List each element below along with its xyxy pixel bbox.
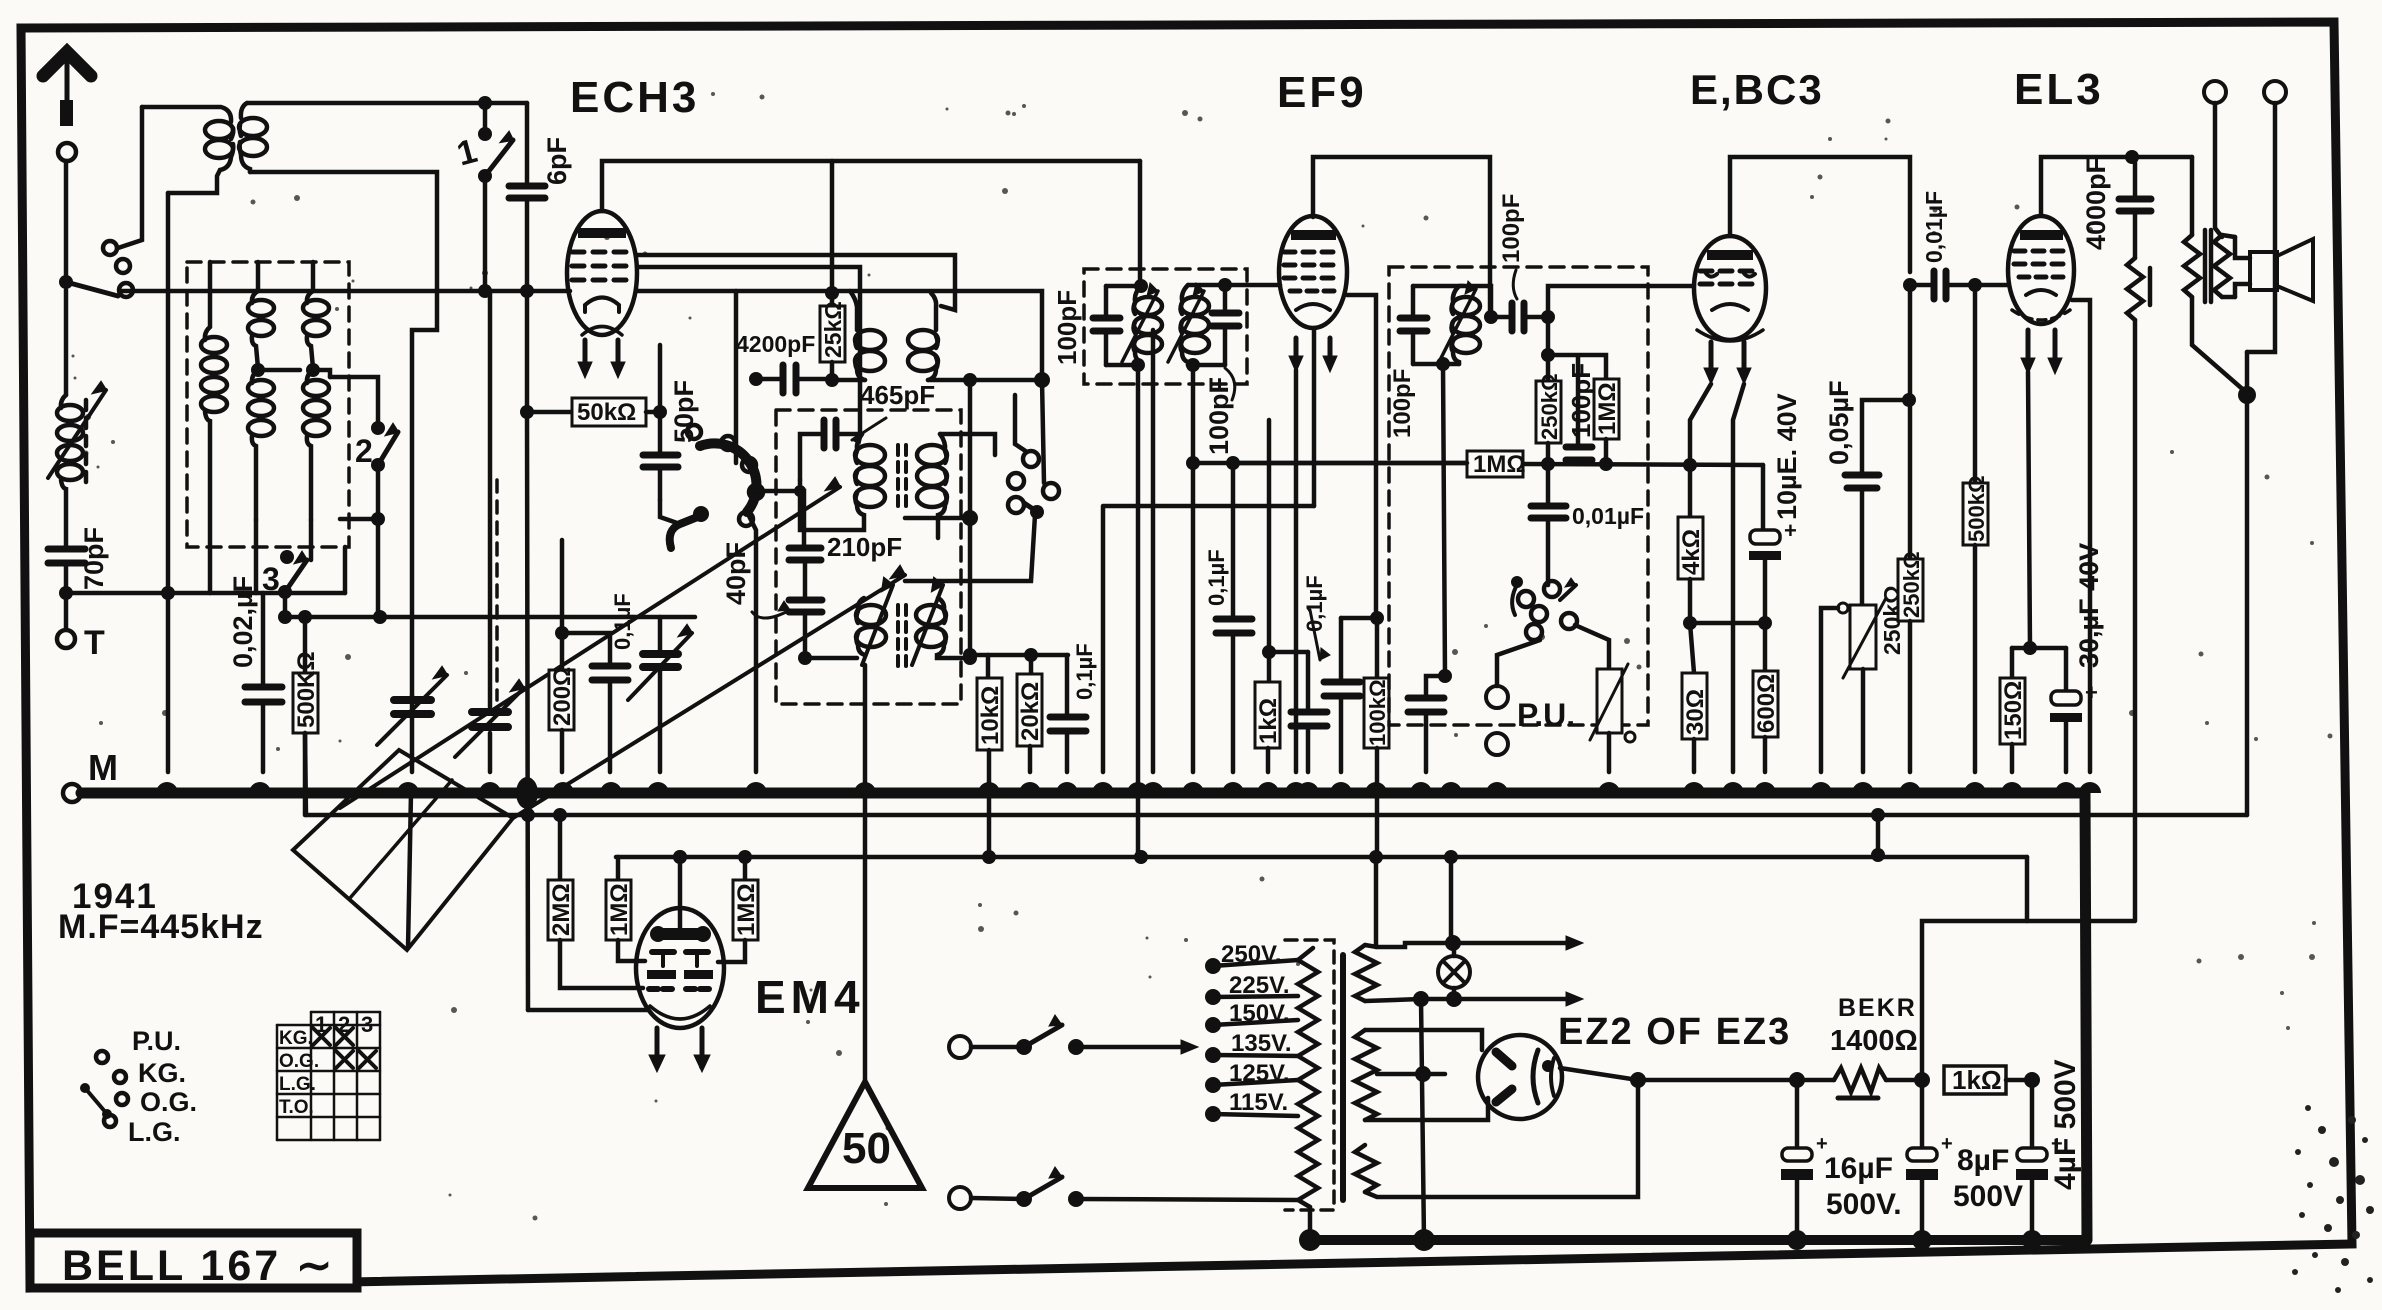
capacitor 4000pF	[2081, 157, 2151, 258]
svg-text:2: 2	[355, 433, 373, 469]
capacitor 4200pF	[736, 331, 832, 393]
capacitor 100pF series	[1491, 194, 1548, 331]
resistor BEKR 1400Ω	[1797, 994, 1922, 1098]
resistor 30Ω	[1682, 623, 1709, 772]
secondary S3	[1355, 1145, 1377, 1192]
svg-text:E,BC3: E,BC3	[1690, 66, 1824, 113]
svg-text:50pF: 50pF	[669, 380, 699, 443]
svg-text:465pF: 465pF	[860, 380, 935, 410]
resistor 1kΩ	[1255, 420, 1308, 772]
resistor 100kΩ	[1341, 295, 1390, 858]
wire S2 top to EZ2	[1365, 1030, 1482, 1050]
wire y593	[66, 591, 345, 596]
resistor 200Ω	[549, 633, 576, 772]
svg-text:L.G.: L.G.	[128, 1117, 181, 1147]
capacitor 0.1µF osc	[1050, 643, 1097, 772]
triangle 50	[808, 1082, 922, 1188]
wire EM4 left feed	[528, 1008, 648, 1013]
svg-text:1MΩ: 1MΩ	[606, 883, 633, 936]
switch 2	[330, 377, 398, 617]
svg-text:3: 3	[361, 1012, 373, 1037]
resistor 2MΩ	[548, 808, 643, 988]
tube EL3	[2008, 216, 2074, 324]
terminal PU upper	[1486, 640, 1575, 733]
capacitor 0.1µF screen	[1204, 463, 1252, 772]
wire padder column	[863, 665, 868, 1082]
svg-text:KG.: KG.	[279, 1028, 313, 1049]
capacitor 0.1µF cathode a	[1291, 652, 1327, 772]
switch 3	[262, 550, 307, 624]
svg-text:P.U.: P.U.	[1517, 697, 1575, 733]
EL3 cathode arrows	[2021, 330, 2062, 374]
output transformer secondary	[2214, 235, 2235, 297]
svg-text:10kΩ: 10kΩ	[977, 686, 1004, 745]
antenna	[43, 52, 91, 161]
wire heater return to bus	[1421, 999, 1424, 1240]
transformer core	[1340, 955, 1346, 1200]
resistor 250kΩ det	[1536, 373, 1562, 471]
svg-text:600Ω: 600Ω	[1753, 674, 1780, 733]
tuning gang capacitor 1	[377, 667, 447, 948]
svg-text:50kΩ: 50kΩ	[577, 399, 636, 426]
speaker return	[2238, 352, 2256, 815]
svg-text:0,1µF: 0,1µF	[610, 593, 635, 650]
oscillator coil dashed box	[187, 262, 349, 547]
resistor 1MΩ em4 right	[718, 850, 760, 962]
resistor 50kΩ	[520, 398, 660, 426]
IF1 right coil	[1168, 283, 1209, 365]
terminal PU lower	[1486, 733, 1508, 755]
svg-text:250kΩ: 250kΩ	[1899, 551, 1924, 618]
wire EBC3 plate	[1730, 157, 1910, 272]
wire EF9 cathode left	[1294, 370, 1299, 772]
node EBC3 cathode	[1683, 458, 1697, 472]
node branch	[1541, 348, 1555, 362]
tube ECH3	[567, 211, 637, 378]
wire switch3 row	[285, 615, 380, 620]
svg-text:100pF: 100pF	[1389, 369, 1416, 438]
title box BELL 167	[30, 1233, 357, 1290]
svg-text:50: 50	[842, 1124, 891, 1173]
capacitor 30µF 40V	[2050, 543, 2104, 772]
svg-text:115V.: 115V.	[1229, 1089, 1288, 1116]
resistor 10kΩ	[977, 678, 1004, 858]
PU switch cluster	[1511, 576, 1577, 640]
bottom heavy bus	[1310, 1235, 2087, 1245]
svg-text:1400Ω: 1400Ω	[1830, 1025, 1918, 1057]
transformer dashed boundary	[1285, 940, 1334, 1210]
IF transformer 1 dashed box	[1084, 269, 1247, 384]
svg-text:16µF: 16µF	[1824, 1152, 1893, 1185]
osc coil T2	[908, 293, 1042, 380]
svg-text:100pF: 100pF	[1052, 290, 1082, 365]
wire EL3 cathode	[2028, 372, 2030, 648]
capacitor 210pF	[789, 532, 902, 599]
wire ECH3 side y267	[637, 291, 1044, 483]
wire AVC line	[1233, 463, 1763, 465]
transformer taps	[1205, 958, 1298, 1122]
bus connection bumps	[156, 782, 2101, 793]
node 500k tap	[1968, 278, 1982, 292]
node switch1 grid	[478, 284, 492, 298]
wire heater drops	[1376, 857, 1451, 947]
capacitor 40pF	[721, 542, 822, 658]
IF1 left coil	[1106, 279, 1162, 372]
wire S1 bottom rail	[1365, 999, 1570, 1001]
capacitor 50pF	[643, 380, 699, 500]
osc padder coil right	[916, 598, 977, 665]
capacitor 10µE 40V	[1749, 393, 1802, 623]
antenna selector switch	[59, 241, 133, 297]
dial lamp	[1438, 943, 1470, 999]
wire EF9 plate rail	[1313, 157, 1490, 317]
wire top L2/L3 joins	[210, 262, 313, 291]
svg-text:100pF: 100pF	[1498, 194, 1525, 263]
tuning drive diagonal 2	[513, 575, 905, 818]
wire coil bottoms	[256, 520, 311, 593]
svg-text:500V.: 500V.	[1826, 1188, 1902, 1221]
svg-text:135V.: 135V.	[1231, 1030, 1292, 1057]
svg-text:0,1µF: 0,1µF	[1302, 575, 1327, 632]
variable antenna coil	[48, 290, 106, 548]
wire switch contact to 210pF	[750, 491, 804, 546]
wire y463 AVC	[1193, 461, 1467, 466]
svg-text:BELL 167 ∼: BELL 167 ∼	[62, 1242, 335, 1290]
svg-text:500KΩ: 500KΩ	[293, 651, 320, 728]
tube EZ2	[1478, 1035, 1562, 1119]
svg-text:P.U.: P.U.	[132, 1026, 181, 1056]
svg-text:210pF: 210pF	[827, 532, 902, 562]
wire IF1 left drop	[1136, 365, 1141, 858]
node y593 crossing	[161, 586, 175, 600]
wire 500k through	[305, 733, 306, 815]
resistor 1MΩ det	[1548, 355, 1621, 471]
svg-text:100kΩ: 100kΩ	[1365, 679, 1390, 746]
EM4 cathode arrows	[649, 1028, 710, 1072]
svg-text:100pF: 100pF	[1204, 377, 1234, 455]
svg-text:L.G.: L.G.	[279, 1074, 316, 1095]
wire L2 tap	[258, 370, 330, 377]
terminal T	[57, 593, 105, 662]
wire 50kΩ up to tube	[658, 345, 663, 412]
wire plate branch down	[1908, 285, 1913, 400]
svg-text:100pF: 100pF	[1566, 363, 1596, 438]
node 6pF top	[478, 96, 492, 110]
capacitor 0.1µF cathode b	[1302, 575, 1360, 772]
wire ECH3 triode grid right y243	[637, 255, 955, 310]
svg-text:EL3: EL3	[2014, 65, 2104, 114]
wire IF1 right drop	[1191, 365, 1196, 772]
capacitor 0.02µF	[228, 576, 282, 772]
wire EF9 center tail	[1312, 328, 1317, 506]
bus right leg	[2085, 793, 2087, 1240]
wire y815	[306, 813, 2247, 818]
svg-text:2MΩ: 2MΩ	[548, 883, 575, 936]
resistor zigzag B+	[2127, 258, 2150, 920]
svg-text:+: +	[1941, 1133, 1953, 1155]
capacitor 8µF 500V	[1906, 1080, 2023, 1240]
band switch table	[277, 1012, 380, 1140]
wire node to EBC3 grid	[1548, 286, 1694, 317]
node det	[1484, 310, 1498, 324]
svg-text:500kΩ: 500kΩ	[1964, 475, 1989, 542]
svg-text:30,µF 40V: 30,µF 40V	[2074, 543, 2104, 668]
wire ECH3 plate to top rail	[602, 161, 1140, 211]
capacitor 100pF af	[1566, 356, 1596, 464]
wire left drop to ground bus	[166, 193, 171, 772]
svg-text:EF9: EF9	[1277, 68, 1367, 117]
output transformer primary	[2184, 157, 2247, 393]
wire primary to selector	[118, 107, 142, 248]
svg-text:40pF: 40pF	[721, 542, 751, 605]
svg-text:EM4: EM4	[755, 971, 865, 1023]
svg-text:20kΩ: 20kΩ	[1017, 682, 1044, 741]
wire grid column through bus	[527, 291, 528, 1010]
node grid line	[520, 284, 534, 298]
band rotary switch	[670, 425, 763, 548]
svg-text:O.G.: O.G.	[140, 1087, 197, 1117]
wire switch1 down to grid line	[483, 176, 488, 291]
svg-text:0,02,µF: 0,02,µF	[228, 576, 258, 668]
capacitor 100pF IF1 right	[1188, 285, 1239, 365]
wire cathode node	[1690, 621, 1765, 626]
volume potentiometer	[1575, 625, 1635, 772]
wire rail into IF1	[1138, 161, 1143, 286]
svg-text:KG.: KG.	[138, 1058, 186, 1088]
IF2 coil left	[800, 434, 885, 530]
svg-text:BEKR: BEKR	[1838, 994, 1917, 1022]
wire EZ2 output	[1560, 1068, 1797, 1080]
svg-text:3: 3	[262, 561, 280, 597]
big bus junction	[516, 777, 538, 809]
potentiometer 250kΩ tone	[1821, 585, 1905, 772]
node T join	[825, 373, 839, 387]
secondary S1	[1355, 945, 1377, 1001]
IF2 dashed box	[776, 410, 961, 704]
capacitor 16µF 500V	[1781, 1080, 1902, 1240]
detector coil	[1413, 281, 1480, 371]
node x563	[560, 540, 565, 633]
svg-text:M.F=445kHz: M.F=445kHz	[58, 908, 264, 946]
wire B+ return loop	[1922, 921, 2135, 1080]
osc padder coil left	[798, 598, 886, 665]
node junction	[59, 586, 73, 600]
svg-text:+: +	[1784, 518, 1797, 543]
EBC3 cathode arrows	[1690, 342, 1751, 772]
loudspeaker	[2235, 237, 2313, 301]
svg-text:0,01µF: 0,01µF	[1572, 503, 1644, 529]
svg-text:1MΩ: 1MΩ	[733, 883, 760, 936]
padder tuning arrows	[862, 585, 893, 665]
capacitor 100pF det	[1389, 286, 1427, 438]
svg-text:T: T	[84, 624, 105, 662]
terminal M	[63, 747, 118, 802]
wire coil top to diode node	[1459, 286, 1491, 317]
IF2 core dashes	[898, 445, 906, 508]
wire osc to 10k	[968, 380, 973, 655]
mechanical link dashes	[495, 480, 499, 700]
terminal ext 1	[2204, 81, 2226, 237]
secondary S2	[1355, 1030, 1377, 1120]
terminal ext 2	[2247, 81, 2286, 352]
node coupling	[1903, 278, 1917, 292]
resistor 4kΩ	[1678, 465, 1705, 630]
chassis bus M	[81, 788, 2085, 799]
resistor 1kΩ out	[1944, 1065, 2032, 1095]
capacitor 6pF	[509, 103, 572, 291]
grid line wire to ECH3	[120, 289, 570, 294]
padder core dashes	[898, 605, 906, 668]
capacitor 0.01µF coupling	[1910, 191, 2008, 299]
oscillator coil L3	[303, 291, 329, 520]
svg-text:4000pF: 4000pF	[2081, 157, 2111, 250]
resistor 1MΩ AVC series	[1467, 451, 1526, 478]
svg-text:M: M	[88, 747, 118, 788]
trimmer capacitor osc	[377, 617, 695, 772]
wire switch to bus	[747, 512, 756, 772]
wire S3 to output node	[1365, 1080, 1638, 1197]
tuning gang capacitor 2	[455, 291, 524, 772]
svg-text:1MΩ: 1MΩ	[1473, 451, 1526, 478]
wire det return	[1426, 364, 1445, 697]
resistor 250kΩ	[1898, 400, 1924, 772]
IF2 coil right	[917, 434, 995, 538]
mains switch 2	[949, 1167, 1298, 1209]
svg-text:EZ2 OF EZ3: EZ2 OF EZ3	[1558, 1011, 1791, 1053]
transformer primary winding	[1298, 948, 1318, 1207]
resistor 1MΩ em4 left	[606, 857, 645, 961]
svg-text:250kΩ: 250kΩ	[1537, 373, 1562, 440]
svg-text:10µE. 40V: 10µE. 40V	[1772, 393, 1802, 520]
wire EL3 plate rail	[2041, 157, 2192, 215]
wire y857 heater rail	[616, 855, 2027, 860]
svg-text:6pF: 6pF	[542, 137, 572, 185]
band legend terminals	[80, 1026, 197, 1147]
wire IF1 to EF9 grid	[1188, 283, 1280, 288]
blobs bottom bus	[1299, 1229, 2042, 1251]
switch 1	[453, 127, 513, 183]
capacitor 70pF	[48, 527, 109, 593]
wire S2 bottom to EZ2	[1365, 1098, 1488, 1120]
svg-text:ECH3: ECH3	[570, 73, 699, 122]
svg-text:0,1µF: 0,1µF	[1204, 549, 1229, 606]
svg-text:500V: 500V	[1953, 1180, 2023, 1213]
antenna input transformer	[142, 103, 267, 193]
capacitor 0.01µF det	[1531, 464, 1644, 585]
wire secondary top to switch1	[247, 103, 527, 134]
resistor 150Ω	[2000, 648, 2027, 772]
svg-text:1kΩ: 1kΩ	[1255, 698, 1282, 744]
capacitor 100pF IF1 left	[1052, 286, 1120, 365]
svg-text:25kΩ: 25kΩ	[820, 301, 846, 358]
svg-text:O.G.: O.G.	[279, 1051, 319, 1072]
svg-text:30Ω: 30Ω	[1682, 689, 1709, 735]
transformer tap labels	[1221, 941, 1292, 1116]
svg-text:4200pF: 4200pF	[736, 331, 815, 357]
wire EL3 screen	[2072, 300, 2090, 772]
capacitor det bypass	[1408, 698, 1444, 772]
svg-text:T.O.: T.O.	[279, 1097, 314, 1118]
wire secondary bottom to gang	[250, 172, 437, 695]
svg-text:1MΩ: 1MΩ	[1594, 382, 1621, 435]
node AF	[1541, 310, 1555, 324]
svg-text:0,1µF: 0,1µF	[1072, 643, 1097, 700]
oscillator coil L1	[201, 291, 227, 593]
tuning drive tilted box	[293, 750, 513, 950]
tube EBC3	[1694, 236, 1766, 341]
wire antenna to selector	[64, 161, 69, 277]
capacitor 465pF	[800, 380, 935, 480]
wire suppressor to chassis	[1151, 330, 1156, 772]
wire y506	[1103, 506, 1314, 772]
detector dashed box	[1389, 267, 1648, 725]
svg-text:8µF: 8µF	[1957, 1144, 2009, 1177]
tube EM4	[636, 850, 724, 1028]
resistor 25kΩ	[820, 161, 846, 380]
svg-text:150Ω: 150Ω	[2000, 681, 2027, 740]
wire S1 top to heater rail	[1365, 943, 1570, 947]
oscillator coil L2	[248, 291, 274, 520]
resistor 500kΩ	[293, 617, 320, 815]
resistor 20kΩ	[1017, 648, 1044, 772]
svg-text:4kΩ: 4kΩ	[1678, 529, 1705, 575]
tube EF9	[1279, 216, 1347, 372]
mains switch 1	[949, 1015, 1198, 1058]
resistor 600Ω	[1753, 623, 1780, 772]
capacitor 0.05µF	[1824, 380, 1909, 605]
capacitor 4µF 500V	[2016, 1059, 2082, 1240]
osc coil T1	[736, 291, 885, 463]
corner noise	[2292, 1105, 2374, 1293]
svg-text:200Ω: 200Ω	[549, 667, 576, 726]
tuning drive diagonal 1	[340, 487, 840, 808]
resistor 500kΩ out	[1963, 285, 1989, 772]
node 8uF	[1914, 1072, 1930, 1088]
output transformer core	[2205, 230, 2211, 302]
svg-text:0,01µF: 0,01µF	[1921, 191, 1947, 263]
svg-text:+: +	[2085, 680, 2098, 705]
wire osc row to bus	[343, 547, 348, 593]
capacitor 0.1µF cathode	[562, 593, 635, 772]
svg-text:4µF 500V: 4µF 500V	[2049, 1059, 2082, 1190]
wire S2 mid	[1377, 1072, 1445, 1077]
svg-text:0,05µF: 0,05µF	[1824, 380, 1854, 465]
switch contacts right of IF2	[905, 395, 1059, 581]
wire 50pF to switch	[660, 500, 680, 524]
svg-text:1kΩ: 1kΩ	[1952, 1065, 2002, 1095]
svg-text:70pF: 70pF	[79, 527, 109, 590]
